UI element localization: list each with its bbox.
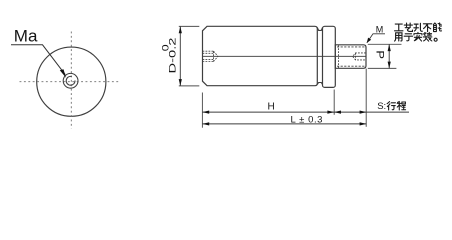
- H arrow right: [327, 111, 334, 114]
- H arrow left: [202, 111, 209, 114]
- P arrow up: [388, 44, 391, 51]
- note line1: yi 艺: [404, 23, 412, 31]
- leader line from Ma: [11, 45, 65, 75]
- end-view horizontal centerline: [20, 81, 120, 83]
- P dimension line: [388, 44, 390, 68]
- note line1: kong 孔: [414, 23, 422, 31]
- D arrow up: [179, 26, 182, 33]
- note line2: zhuang 装: [423, 32, 432, 41]
- P arrow down: [388, 62, 391, 69]
- svg-text:Ma: Ma: [14, 26, 38, 45]
- body tapped hole end + cone (hidden): [214, 51, 219, 61]
- extension line rod end: [365, 69, 367, 127]
- D dimension line: [179, 26, 181, 86]
- end-view vertical centerline: [70, 32, 72, 129]
- extension line left (body): [201, 93, 203, 128]
- svg-text:0: 0: [161, 44, 172, 51]
- note line2: period 。: [434, 38, 437, 41]
- P extension line bottom: [368, 67, 397, 69]
- center hole inner circle (thread minor): [66, 76, 75, 85]
- L arrow right: [360, 122, 367, 125]
- L arrow left: [202, 122, 209, 125]
- side-view centerline: [203, 55, 366, 57]
- svg-text:D-0.2: D-0.2: [168, 38, 179, 74]
- svg-text:S:: S:: [377, 101, 386, 112]
- note line2: an 安: [414, 32, 422, 41]
- svg-text:H: H: [268, 101, 275, 112]
- S arrow right: [360, 111, 367, 114]
- D extension line top: [179, 25, 200, 27]
- note line1: bu 不: [423, 24, 431, 32]
- svg-text:P: P: [373, 50, 385, 59]
- L dimension line: [202, 123, 366, 125]
- S label: cheng 程: [397, 101, 405, 110]
- D arrow down: [179, 79, 182, 86]
- S label: xing 行: [387, 102, 395, 110]
- center hole outer circle (thread major): [63, 73, 78, 88]
- thread runout line on rod (hidden): [338, 45, 340, 68]
- H/S dimension line: [202, 111, 409, 113]
- extension line flange right: [333, 90, 335, 115]
- note line2: yu 于: [404, 34, 412, 41]
- neck groove bottom: [317, 83, 322, 85]
- D extension line bottom: [179, 85, 200, 87]
- cylinder body outline: [203, 26, 318, 85]
- M leader line: [367, 34, 385, 43]
- body tapped hole inner lines (hidden): [203, 53, 215, 59]
- P extension line top: [368, 43, 402, 45]
- rod tip tapped hole outline (hidden): [353, 53, 366, 60]
- end-view outer circle: [37, 47, 106, 116]
- piston rod (shaft): [335, 45, 366, 69]
- M leader arrowhead: [367, 38, 371, 43]
- external thread minor dia top (hidden line): [337, 46, 366, 48]
- neck groove top: [317, 28, 322, 31]
- leader arrowhead at center hole: [60, 69, 66, 78]
- note line1: gong 工: [395, 24, 403, 31]
- body left face tapped hole Ma: outer lines (hidden): [203, 51, 214, 61]
- rod tapped hole end line (hidden): [355, 53, 357, 60]
- note line1: neng 能: [433, 23, 441, 32]
- external thread minor dia bottom (hidden line): [337, 65, 366, 67]
- svg-text:L ± 0.3: L ± 0.3: [291, 115, 323, 126]
- svg-text:M: M: [376, 25, 384, 35]
- note line2: yong 用: [395, 33, 402, 41]
- S arrow left: [334, 111, 341, 114]
- flange ring: [323, 26, 336, 87]
